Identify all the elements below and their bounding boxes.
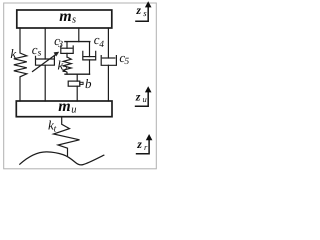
svg-text:z: z xyxy=(135,3,141,17)
svg-text:m: m xyxy=(58,98,70,115)
svg-text:r: r xyxy=(144,142,148,152)
svg-text:s: s xyxy=(38,48,42,58)
svg-text:z: z xyxy=(135,90,141,104)
svg-text:b: b xyxy=(85,76,92,91)
svg-text:5: 5 xyxy=(124,57,129,67)
svg-text:u: u xyxy=(71,104,76,115)
svg-text:m: m xyxy=(59,8,71,25)
svg-text:3: 3 xyxy=(57,40,63,50)
svg-text:s: s xyxy=(143,8,147,18)
svg-text:2: 2 xyxy=(62,65,67,75)
svg-text:u: u xyxy=(143,94,147,104)
svg-text:s: s xyxy=(72,15,76,26)
svg-text:t: t xyxy=(54,125,57,135)
svg-text:z: z xyxy=(136,137,142,151)
svg-text:4: 4 xyxy=(99,40,104,50)
svg-text:k: k xyxy=(10,46,16,61)
